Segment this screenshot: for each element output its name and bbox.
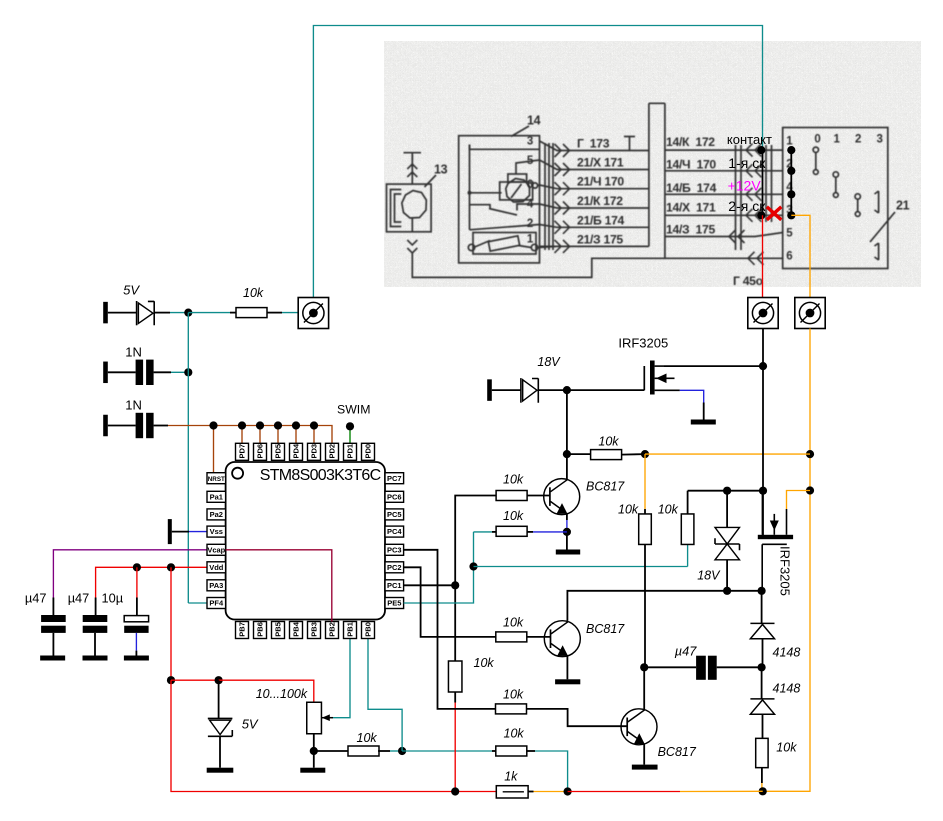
wire terminal to zener 18V <box>492 389 521 391</box>
svg-text:1-я ск: 1-я ск <box>728 155 766 171</box>
wire brown to PD pin x314 <box>313 426 315 444</box>
svg-text:SWIM: SWIM <box>337 403 370 417</box>
harness bundle verticals left <box>545 143 553 250</box>
node scan row4 pin4 <box>787 190 795 198</box>
harness row right 4 chevrons <box>746 209 753 222</box>
harness row right 2 wire <box>665 170 783 172</box>
wire resistor to orange <box>621 453 645 456</box>
wire orange down to resistor 10k vert a <box>644 454 646 509</box>
svg-text:NRST: NRST <box>208 476 225 483</box>
svg-text:PB7: PB7 <box>238 622 247 637</box>
wire PC1 to node <box>404 584 456 586</box>
wire emitter Q5 ground <box>643 744 645 764</box>
svg-text:4: 4 <box>527 199 534 211</box>
harness row right 2 chevrons <box>746 164 753 177</box>
wire resistor blue to emitter node <box>527 531 533 533</box>
svg-text:10k: 10k <box>503 688 524 702</box>
wire teal to resistor 10k emitter row <box>474 531 493 533</box>
wire zener bottom lead <box>219 736 221 767</box>
harness row right 6 chevrons <box>748 252 755 265</box>
wire teal PE5 vertical <box>404 532 474 603</box>
MCU pin PC7 <box>385 473 404 484</box>
wire red rail mid <box>568 791 680 793</box>
wire teal into PF4 <box>188 602 207 604</box>
connector 21 contact col 0 <box>813 147 818 152</box>
terminal <box>168 519 172 544</box>
node rail PC1 column <box>451 787 459 795</box>
block 14 resistor assembly box <box>473 233 536 255</box>
diode 5V zener <box>136 301 138 325</box>
svg-text:PC2: PC2 <box>387 563 402 572</box>
svg-text:10k: 10k <box>776 741 797 755</box>
wire red Vdd down <box>170 567 172 680</box>
wire cap2 top lead <box>95 598 97 616</box>
ground MOSFET source <box>691 420 716 425</box>
node red rail left <box>167 676 175 684</box>
svg-text:PB5: PB5 <box>274 622 283 637</box>
wire orange gate Q3 <box>787 491 811 510</box>
MCU pin PB4 <box>290 622 303 639</box>
harness row right 3 chevrons <box>746 188 753 201</box>
svg-text:21/К 172: 21/К 172 <box>577 194 623 208</box>
svg-text:6: 6 <box>786 251 792 263</box>
svg-text:Pa2: Pa2 <box>210 510 223 519</box>
wire terminal to capacitor 1N a <box>108 371 136 373</box>
block 14 motor slash <box>511 184 522 198</box>
MCU pin PD1 <box>344 443 357 460</box>
component 13 lower chevrons <box>407 240 417 245</box>
MCU pin PD3 <box>308 443 321 460</box>
resistor 10k teal row <box>496 746 527 756</box>
MCU pin PF4 <box>207 598 226 609</box>
resistor 10k base Q4 <box>496 632 527 642</box>
potentiometer wiper arrow <box>322 717 334 719</box>
block 14 pin 5 wire <box>516 160 540 174</box>
block 14 motor junction <box>468 191 472 195</box>
svg-text:2: 2 <box>527 218 533 230</box>
node bus NRST <box>209 421 217 429</box>
node bus PD3 <box>310 421 318 429</box>
resistor 10k bottom right <box>756 738 768 767</box>
wire orange after 1k <box>528 791 533 793</box>
diode zener 5V <box>208 717 233 719</box>
wire zener to node <box>538 389 567 391</box>
svg-text:21: 21 <box>896 199 910 213</box>
svg-text:21/Ч 170: 21/Ч 170 <box>577 175 624 189</box>
svg-text:2: 2 <box>855 134 861 146</box>
svg-text:PC3: PC3 <box>387 545 402 554</box>
block 14 resistor right contact <box>531 244 537 250</box>
svg-text:21/З 175: 21/З 175 <box>577 232 623 246</box>
red X mark <box>767 207 782 220</box>
wire capacitor to bus <box>154 425 168 427</box>
MCU pin PB3 <box>308 622 321 639</box>
wire green SWIM <box>349 426 351 443</box>
svg-text:Г 173: Г 173 <box>577 137 610 151</box>
svg-text:10k: 10k <box>357 731 378 745</box>
transistor Q4 BC817 <box>544 621 580 657</box>
node 4148 mid <box>758 663 766 671</box>
wire brown to PD pin x296 <box>295 426 297 444</box>
harness row left 2 chevrons <box>555 163 562 176</box>
svg-text:14: 14 <box>527 114 541 128</box>
wire capacitor to node <box>154 371 171 373</box>
wire TVS bottom lead <box>726 560 728 591</box>
svg-text:PD4: PD4 <box>292 443 301 458</box>
wire resistor to base <box>527 495 550 497</box>
svg-text:18V: 18V <box>697 568 721 582</box>
wire cap3 bottom lead blue <box>135 633 137 651</box>
svg-text:µ47: µ47 <box>675 644 697 659</box>
node scan row1 pin1 <box>787 146 795 154</box>
capacitor 1N a <box>136 360 144 385</box>
terminal <box>103 362 108 384</box>
wire component 13 to pin 6 of connector 21 <box>412 253 782 277</box>
svg-text:10k: 10k <box>503 509 524 523</box>
svg-text:PC6: PC6 <box>387 492 402 501</box>
wire resistor to rail <box>761 768 763 783</box>
wire capacitor to node 4148 <box>717 666 762 668</box>
block 14 resistor leads <box>475 241 532 248</box>
svg-text:10k: 10k <box>618 503 639 517</box>
MCU pin PA3 <box>207 580 226 591</box>
wire PC3 to base resistor <box>404 550 496 709</box>
node orange row1 <box>806 450 814 458</box>
wire teal up to resistor 10k vert b <box>687 544 689 566</box>
wire emitter Q2 to node <box>566 514 568 520</box>
transistor Q5 BC817 <box>621 709 657 745</box>
MCU pin Vcap <box>207 544 226 555</box>
node drain <box>759 362 767 370</box>
svg-text:Vcap: Vcap <box>207 545 225 554</box>
harness row right 5 wire <box>665 233 783 237</box>
node scan row4 pin3 <box>787 211 795 219</box>
block 14 pin 3 wire <box>470 145 540 150</box>
MCU pin PB2 <box>326 622 339 639</box>
node 1N a <box>184 368 192 376</box>
svg-text:4148: 4148 <box>773 682 801 696</box>
wire teal row to resistor 10k right <box>402 750 492 752</box>
diode zener 18V <box>520 378 522 403</box>
wire resistor to bottom rail teal <box>527 750 535 752</box>
svg-text:14/З 175: 14/З 175 <box>666 223 716 237</box>
svg-text:PF4: PF4 <box>209 599 224 608</box>
wire terminal to capacitor 1N b <box>108 425 136 427</box>
node 10k row454 <box>563 450 571 458</box>
svg-text:PC5: PC5 <box>387 510 402 519</box>
wire cap2 bottom lead <box>94 633 96 656</box>
component 13 shaft line <box>411 155 413 232</box>
connector icon A <box>298 298 328 329</box>
harness row right 4 wire <box>665 214 783 216</box>
block 14 switch blade <box>470 204 540 215</box>
svg-text:10...100k: 10...100k <box>256 687 308 701</box>
transistor Q2 BC817 <box>544 479 580 515</box>
wire 4148 a top lead <box>761 591 763 624</box>
wire brown to PD pin x242 <box>241 426 243 444</box>
svg-text:PD5: PD5 <box>274 444 283 459</box>
svg-text:5V: 5V <box>242 717 259 732</box>
wire purple Vcap <box>53 550 207 598</box>
wire collector column BC817 no1 <box>566 390 568 480</box>
MCU pin Vss <box>207 526 226 537</box>
svg-text:1: 1 <box>527 234 534 246</box>
resistor 1k <box>496 786 528 798</box>
resistor 10k row454 <box>591 450 622 460</box>
node TVS bottom <box>723 587 731 595</box>
node rail teal column <box>564 787 572 795</box>
ground cap 10u <box>124 656 149 661</box>
wire teal row566 <box>474 566 688 568</box>
MCU pin PE5 <box>385 598 404 609</box>
harness row left 6 wire <box>540 245 649 247</box>
node pot bottom <box>310 747 318 755</box>
MCU pin PB5 <box>272 622 285 639</box>
node scan row4 left <box>757 211 765 219</box>
wire resistor vert b top lead <box>687 491 689 514</box>
wire pot bottom <box>313 734 315 751</box>
svg-text:1N: 1N <box>125 344 142 359</box>
MCU pin PC1 <box>385 580 404 591</box>
harness row left 1 chevrons <box>555 144 562 157</box>
MCU pin PC5 <box>385 509 404 520</box>
wire brown reset bus <box>168 426 332 444</box>
svg-text:5: 5 <box>786 228 793 240</box>
svg-text:Г 45о: Г 45о <box>733 274 763 288</box>
ground Q4 <box>555 679 580 684</box>
svg-text:PA3: PA3 <box>209 581 223 590</box>
ground cap u47 a <box>40 656 65 661</box>
harness row left 4 chevrons <box>555 202 562 215</box>
MCU pin Vdd <box>207 562 226 573</box>
svg-text:PC1: PC1 <box>387 581 402 590</box>
svg-text:Vdd: Vdd <box>209 563 224 572</box>
wire row 173 end T mark <box>624 137 635 151</box>
resistor 10k base Q5 <box>496 704 527 714</box>
harness row left 1 wire <box>540 141 649 151</box>
ground Q5 <box>632 765 658 770</box>
MCU pin PD5 <box>272 443 285 460</box>
scanned schematic fragment background <box>384 41 921 287</box>
svg-text:1N: 1N <box>125 398 142 413</box>
block 14 resistor tilted <box>488 236 519 251</box>
svg-text:PC4: PC4 <box>387 527 402 536</box>
node 5V row <box>184 309 192 317</box>
MCU pin PD6 <box>254 443 267 460</box>
harness row right 1 wire <box>665 149 783 151</box>
node bus PD6 <box>256 421 264 429</box>
wire emitter ground stub <box>566 532 568 550</box>
harness row left 4 wire <box>540 204 649 208</box>
svg-text:5: 5 <box>527 155 534 167</box>
svg-text:Pa1: Pa1 <box>210 492 223 501</box>
wire PB0 teal <box>368 639 402 752</box>
wire 4148 b top lead <box>761 667 763 699</box>
svg-text:PC7: PC7 <box>387 474 402 483</box>
wire overlay vertical right in scan <box>790 150 792 215</box>
svg-text:6: 6 <box>527 179 533 191</box>
svg-text:10k: 10k <box>503 473 524 487</box>
wire red from scan to icon <box>762 215 764 298</box>
component 13 body <box>387 184 432 232</box>
svg-text:4148: 4148 <box>773 646 801 660</box>
resistor 10k vert a <box>639 514 652 545</box>
wire zener top lead <box>218 680 220 718</box>
svg-text:14/Б 174: 14/Б 174 <box>666 181 717 195</box>
svg-text:PE5: PE5 <box>387 599 401 608</box>
wire MOSFET source blue to ground <box>680 390 704 402</box>
MCU pin NRST <box>207 473 226 484</box>
ground Q2 <box>556 550 580 555</box>
wire wiper to PB1 teal <box>333 639 350 718</box>
svg-text:PD7: PD7 <box>238 444 247 459</box>
node orange row2 <box>806 486 814 494</box>
wire red to potentiometer <box>219 680 314 702</box>
MCU pin Pa1 <box>207 491 226 502</box>
svg-text:µ47: µ47 <box>68 590 90 605</box>
ground potentiometer <box>300 768 325 773</box>
svg-text:10k: 10k <box>243 286 264 300</box>
svg-text:10µ: 10µ <box>102 590 124 605</box>
node Vdd <box>167 563 175 571</box>
block 14 inner left bus <box>469 145 471 230</box>
svg-text:1: 1 <box>834 134 841 146</box>
wire red to zener <box>171 679 219 681</box>
MCU pin PD7 <box>236 443 249 460</box>
svg-text:µ47: µ47 <box>25 590 47 605</box>
wire terminal to diode 5V <box>108 312 137 314</box>
MCU pin PB0 <box>362 622 375 639</box>
wire red bottom rail left <box>171 680 496 791</box>
MCU pin1 marker circle <box>232 468 243 479</box>
svg-text:3: 3 <box>877 134 883 146</box>
node SWIM <box>346 422 354 430</box>
MCU pin PB7 <box>236 622 249 639</box>
harness row left 2 wire <box>540 160 649 170</box>
svg-text:21/Х 171: 21/Х 171 <box>577 156 624 170</box>
node gate row <box>563 386 571 394</box>
wire resistor to red <box>454 692 456 703</box>
harness row right 5 chevrons <box>729 230 736 243</box>
capacitor 10u electrolytic <box>124 616 148 622</box>
harness row right 1 chevrons <box>746 144 753 157</box>
capacitor u47 right <box>696 656 706 680</box>
svg-text:3: 3 <box>527 136 533 148</box>
block 14 pin 6 wire <box>538 184 540 187</box>
block 14 pin 2 wire <box>470 225 540 230</box>
svg-text:IRF3205: IRF3205 <box>778 546 793 596</box>
harness row left 3 chevrons <box>555 182 562 195</box>
harness row left 5 wire <box>540 225 649 228</box>
component 13 motor circle <box>402 191 427 219</box>
svg-text:Vss: Vss <box>210 527 223 536</box>
block 14 motor top rect <box>508 174 527 182</box>
node scan row1 left <box>757 146 765 154</box>
svg-text:10k: 10k <box>474 656 495 670</box>
svg-text:PD3: PD3 <box>310 444 319 459</box>
MCU pin PC2 <box>385 562 404 573</box>
svg-text:10k: 10k <box>598 435 619 449</box>
harness row left 5 chevrons <box>555 221 562 234</box>
node emitter Q2 <box>563 528 571 536</box>
wire node to resistor 10k row454 <box>567 453 591 455</box>
connector 21 contact col 3a <box>875 191 879 213</box>
connector 21 body <box>783 128 888 269</box>
transistor Q1 IRF3205 high-side <box>644 361 680 395</box>
svg-text:10k: 10k <box>503 616 524 630</box>
MCU pin PB1 <box>344 622 357 639</box>
wire node to MOSFET gate <box>567 389 644 391</box>
wire brown to PD pin x278 <box>277 426 279 444</box>
node drain2 <box>759 487 767 495</box>
ground cap u47 b <box>83 656 108 661</box>
wire resistor to teal node <box>378 750 390 752</box>
wire collector node to capacitor <box>644 666 696 668</box>
wire TVS top lead <box>726 491 728 528</box>
svg-text:5V: 5V <box>123 282 140 297</box>
svg-text:PB1: PB1 <box>346 622 355 637</box>
harness bundle verticals right <box>736 145 772 250</box>
MCU pin PC4 <box>385 526 404 537</box>
block 14 motor left wire <box>470 192 502 194</box>
wire red Vdd rail <box>96 567 207 597</box>
node teal PB0 <box>398 747 406 755</box>
label 14 leader <box>511 126 529 137</box>
svg-text:PD1: PD1 <box>346 444 355 459</box>
svg-text:BC817: BC817 <box>586 480 625 494</box>
potentiometer 10...100k <box>307 702 322 734</box>
svg-text:BC817: BC817 <box>586 622 625 636</box>
node TVS top <box>723 487 731 495</box>
relay block 14 body <box>459 136 540 263</box>
resistor 10k pot <box>348 746 379 756</box>
svg-text:PD2: PD2 <box>328 444 337 459</box>
svg-text:13: 13 <box>434 163 448 177</box>
svg-text:1: 1 <box>786 135 793 147</box>
block 14 resistor left contact <box>468 244 474 250</box>
svg-text:PB2: PB2 <box>328 622 337 637</box>
wire PC1 vertical to base resistor <box>455 496 496 586</box>
svg-text:10k: 10k <box>658 503 679 517</box>
harness row right 3 wire <box>665 193 783 195</box>
wire pot to resistor 10k <box>314 750 349 752</box>
connector 21 contact col 3b <box>875 243 879 260</box>
MCU pin PC6 <box>385 491 404 502</box>
wire brown to NRST <box>213 426 215 474</box>
node orange left <box>641 450 649 458</box>
wire orange from scan pin 3 <box>791 215 810 298</box>
svg-text:10k: 10k <box>504 727 525 741</box>
svg-text:+12V: +12V <box>728 178 762 194</box>
connector icon B <box>748 298 778 329</box>
connector icon C <box>795 298 825 329</box>
wire resistor to base Q4 <box>527 636 551 638</box>
node PC1 <box>451 581 459 589</box>
wire diode to node <box>154 312 170 314</box>
MCU pin Pa2 <box>207 509 226 520</box>
resistor 10k vert b <box>681 514 694 545</box>
svg-text:PD6: PD6 <box>256 444 265 459</box>
node Vdd cap3 <box>133 563 141 571</box>
svg-text:18V: 18V <box>537 355 561 369</box>
MCU pin PD2 <box>326 443 339 460</box>
node collector Q5 <box>640 663 648 671</box>
svg-text:BC817: BC817 <box>658 745 697 759</box>
wire teal vertical left rail <box>187 313 189 603</box>
block 14 motor right contact circle <box>532 183 537 188</box>
svg-text:1k: 1k <box>504 770 518 784</box>
resistor 10k emitter row <box>496 526 527 536</box>
